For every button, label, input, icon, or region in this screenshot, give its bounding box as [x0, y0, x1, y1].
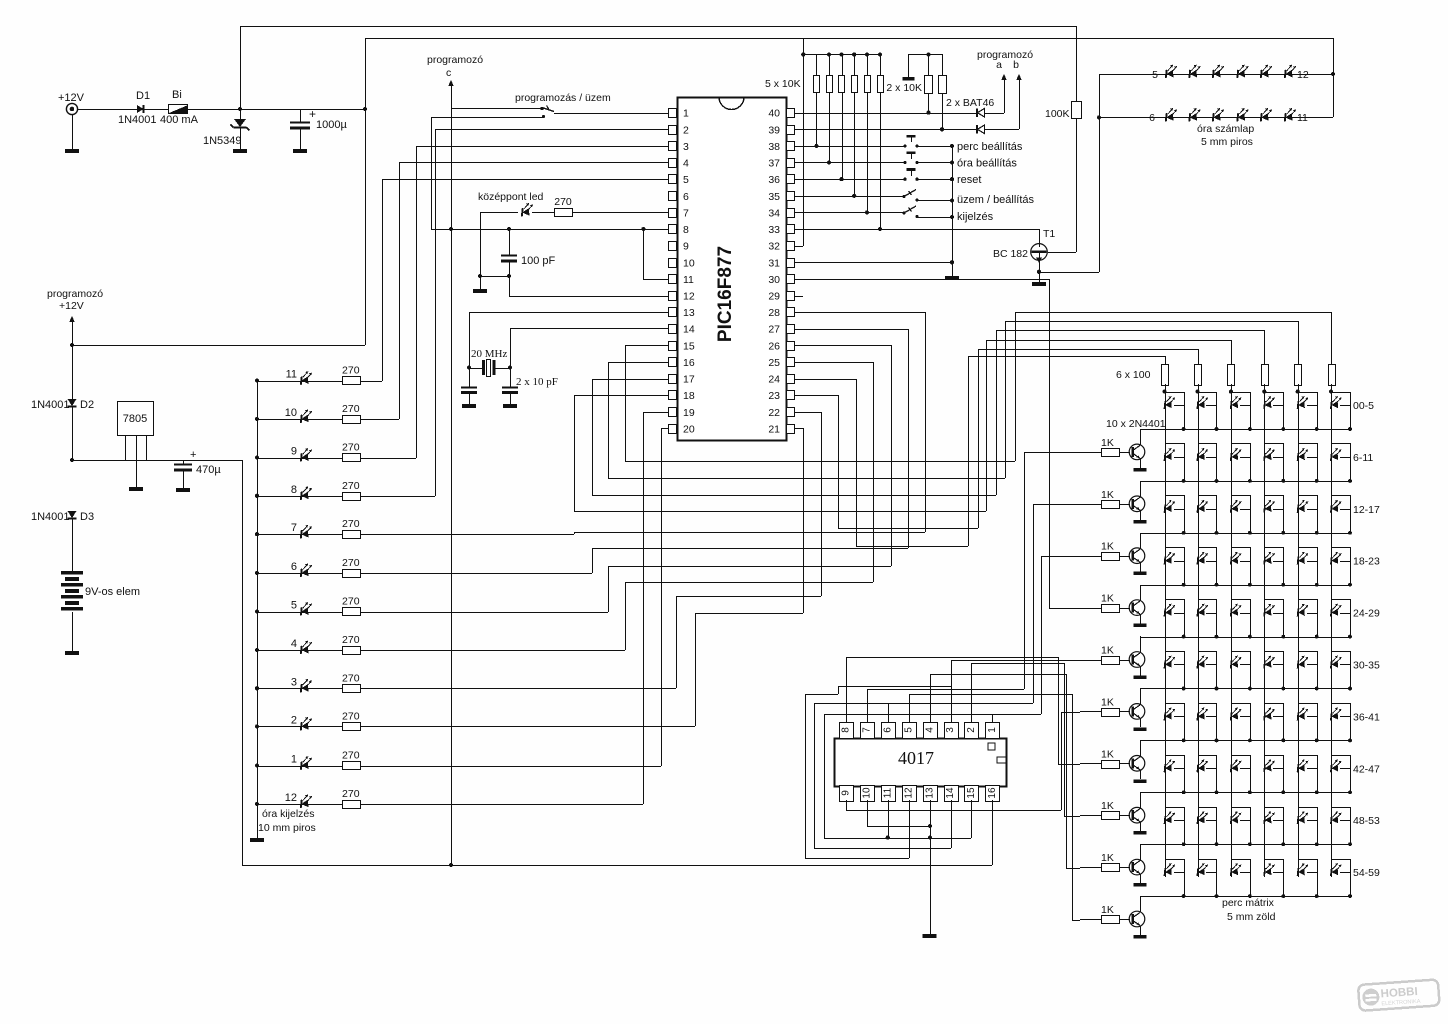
- resistor 270 row 8: [343, 493, 361, 501]
- wire matrix row bus 6: [1140, 740, 1350, 742]
- LED dial row2 5: [1261, 108, 1272, 122]
- resistor 270 row 12: [343, 801, 361, 809]
- svg-text:4: 4: [291, 638, 297, 650]
- node dial right junction: [1331, 72, 1335, 76]
- svg-text:1N4001: 1N4001: [31, 399, 70, 411]
- svg-text:39: 39: [768, 124, 780, 136]
- svg-text:PIC16F877: PIC16F877: [715, 246, 736, 342]
- LED matrix r8c5: [1331, 811, 1342, 824]
- pin 13 PIC: [669, 308, 677, 317]
- svg-text:8: 8: [683, 224, 689, 236]
- resistor 270 row 11: [343, 377, 361, 385]
- wire bracket pin6 pin14 around chip: [951, 800, 953, 848]
- svg-text:1: 1: [683, 108, 689, 120]
- LED matrix r2c5: [1331, 500, 1342, 513]
- LED dial row2 3: [1213, 108, 1224, 122]
- wire 2x10K bridge: [908, 54, 942, 56]
- wire 4017 pin 10 join: [867, 800, 869, 826]
- wire pin21 to LED row 2: [794, 428, 803, 430]
- svg-text:programozó: programozó: [427, 54, 483, 66]
- wire Q2 emitter: [1140, 510, 1142, 520]
- svg-text:270: 270: [342, 788, 360, 800]
- resistor 100 col 3: [1228, 365, 1235, 386]
- wire pin17 matrix column feed: [592, 379, 668, 381]
- wire Q10 collector: [1140, 896, 1142, 912]
- svg-text:óra kijelzés: óra kijelzés: [262, 808, 315, 820]
- pin 9 4017: [840, 786, 854, 802]
- wire +5V bottom bus: [242, 865, 992, 867]
- resistor 270 row 1: [343, 762, 361, 770]
- LED hour 10: [255, 417, 259, 421]
- wire Q8 collector: [1140, 792, 1142, 809]
- capacitor 100 pF: [509, 229, 511, 255]
- wire pin22 to LED row 3: [794, 412, 821, 414]
- transistor Q1 2N4401: [1119, 452, 1130, 454]
- svg-text:100 pF: 100 pF: [521, 255, 556, 267]
- pin 8 4017: [840, 723, 854, 739]
- wire Q6 emitter: [1140, 718, 1142, 727]
- wire pin30 feed to 1K row 3: [1049, 608, 1080, 610]
- LED dial row1 2: [1189, 65, 1200, 79]
- resistor 270 kozeppont: [532, 212, 554, 214]
- LED matrix r2c0: [1164, 500, 1175, 513]
- svg-text:1N4001: 1N4001: [31, 511, 70, 523]
- pin 11 PIC: [669, 275, 677, 284]
- LED matrix r1c3: [1264, 448, 1275, 461]
- wire bracket pin1 pin15 around chip: [824, 714, 992, 716]
- wire pin24 matrix column feed: [794, 379, 856, 381]
- svg-text:18-23: 18-23: [1353, 556, 1380, 568]
- pin 23 PIC: [787, 391, 795, 400]
- LED matrix r1c0: [1164, 448, 1175, 461]
- LED matrix r5c3: [1264, 656, 1275, 669]
- resistor 100 col 1: [1162, 365, 1169, 386]
- pin 10 PIC: [669, 259, 677, 268]
- svg-text:270: 270: [342, 710, 360, 722]
- transistor Q10 2N4401: [1119, 919, 1130, 921]
- node programozo a: [1004, 77, 1006, 113]
- wire +5V line: [70, 458, 74, 462]
- svg-text:perc mátrix: perc mátrix: [1222, 897, 1275, 909]
- svg-text:15: 15: [966, 787, 977, 799]
- svg-text:programozó: programozó: [977, 49, 1033, 61]
- switch óra beállítás: [794, 162, 905, 164]
- svg-text:5 x 10K: 5 x 10K: [765, 78, 801, 90]
- resistor 10K pullup 1: [816, 54, 818, 75]
- wire pin8 net: [431, 229, 668, 231]
- resistor 100K: [1076, 26, 1078, 101]
- svg-text:9: 9: [841, 790, 852, 796]
- ground: [233, 149, 247, 153]
- LED matrix r3c0: [1164, 552, 1175, 565]
- pin 26 PIC: [787, 342, 795, 351]
- svg-text:11: 11: [683, 274, 694, 286]
- resistor 270 row 10: [343, 416, 361, 424]
- node T1 emitter junction: [1037, 270, 1041, 274]
- svg-text:1K: 1K: [1101, 593, 1114, 605]
- pin 12 PIC: [669, 292, 677, 301]
- wire cap to pin12: [509, 276, 511, 296]
- svg-text:perc beállítás: perc beállítás: [957, 141, 1023, 153]
- LED matrix r8c1: [1197, 811, 1208, 824]
- svg-text:4017: 4017: [898, 748, 934, 768]
- svg-text:10 x 2N4401: 10 x 2N4401: [1106, 418, 1166, 430]
- svg-text:15: 15: [683, 340, 695, 352]
- diode D2 1N4001: [72, 345, 74, 399]
- svg-text:100K: 100K: [1045, 108, 1070, 120]
- LED matrix r2c2: [1231, 500, 1242, 513]
- wire c down to +5 bus: [451, 108, 453, 865]
- wire 4017 pin 13 ground: [930, 800, 932, 934]
- pin 3 4017: [945, 723, 959, 739]
- pin 24 PIC: [787, 375, 795, 384]
- svg-text:óra számlap: óra számlap: [1197, 123, 1254, 135]
- LED matrix r4c1: [1197, 604, 1208, 617]
- pin 6 4017: [882, 723, 896, 739]
- LED matrix r6c1: [1197, 707, 1208, 720]
- svg-text:14: 14: [683, 324, 695, 336]
- LED matrix r5c5: [1331, 656, 1342, 669]
- pin 29 PIC: [787, 292, 795, 301]
- wire matrix column verticals: [1165, 392, 1167, 877]
- wire ora szamlap row 6-11: [1097, 115, 1101, 119]
- svg-text:3: 3: [683, 141, 689, 153]
- LED matrix r4c4: [1298, 604, 1309, 617]
- wire pin3 to LED row 9: [416, 146, 668, 148]
- svg-text:7: 7: [861, 727, 872, 733]
- pin 28 PIC: [787, 308, 795, 317]
- ground: [1134, 935, 1147, 939]
- svg-text:270: 270: [342, 442, 360, 454]
- LED matrix r8c4: [1298, 811, 1309, 824]
- LED hour 4: [255, 648, 259, 652]
- wire pin27 to LED row: [794, 329, 908, 331]
- LED matrix r5c0: [1164, 656, 1175, 669]
- svg-text:30: 30: [768, 274, 780, 286]
- ground: [1134, 831, 1147, 835]
- wire pin29 stub: [794, 296, 803, 298]
- svg-text:31: 31: [768, 257, 780, 269]
- pin 7 PIC: [669, 209, 677, 218]
- svg-text:400 mA: 400 mA: [160, 114, 199, 126]
- ground: [65, 149, 79, 153]
- wire bracket pin12 around chip: [909, 800, 911, 858]
- pin 20 PIC: [669, 425, 677, 434]
- svg-text:8: 8: [291, 484, 297, 496]
- LED matrix r3c5: [1331, 552, 1342, 565]
- LED matrix r7c3: [1264, 759, 1275, 772]
- ground: [1032, 282, 1046, 286]
- svg-text:BC 182: BC 182: [993, 248, 1028, 260]
- pin 2 PIC: [669, 126, 677, 135]
- wire pin14 to crystal: [510, 328, 668, 330]
- pin 9 PIC: [669, 242, 677, 251]
- ground: [945, 276, 959, 280]
- svg-text:13: 13: [924, 787, 935, 799]
- wire pin18 matrix column feed: [574, 395, 668, 397]
- wire pin5 to LED row 11: [382, 179, 668, 181]
- svg-text:5: 5: [683, 174, 689, 186]
- wire 4017 pin 7 to 1K: [867, 689, 869, 722]
- svg-text:16: 16: [683, 357, 695, 369]
- LED matrix r1c4: [1298, 448, 1309, 461]
- resistor 10K b: [942, 54, 944, 75]
- LED matrix r9c0: [1164, 863, 1175, 876]
- LED matrix r0c0: [1164, 396, 1175, 409]
- svg-text:27: 27: [768, 324, 780, 336]
- svg-text:14: 14: [945, 787, 956, 799]
- LED hour 7: [255, 532, 259, 536]
- svg-text:270: 270: [342, 634, 360, 646]
- LED matrix r7c4: [1298, 759, 1309, 772]
- pin 2 4017: [965, 723, 979, 739]
- pin 39 PIC: [787, 126, 795, 135]
- resistor 1K row 7: [1080, 815, 1101, 817]
- svg-text:270: 270: [342, 403, 360, 415]
- resistor 1K row 0: [1080, 452, 1101, 454]
- svg-text:6: 6: [1149, 112, 1155, 124]
- wire 4017 pin 2 to 1K: [971, 663, 973, 722]
- svg-text:20: 20: [683, 423, 695, 435]
- svg-text:270: 270: [342, 672, 360, 684]
- transistor Q2 2N4401: [1119, 504, 1130, 506]
- pin 18 PIC: [669, 391, 677, 400]
- wire Q10 emitter: [1140, 926, 1142, 935]
- svg-text:270: 270: [342, 518, 360, 530]
- resistor 100 col 6: [1329, 365, 1336, 386]
- svg-text:270: 270: [342, 480, 360, 492]
- LED matrix r6c5: [1331, 707, 1342, 720]
- LED matrix r5c4: [1298, 656, 1309, 669]
- svg-text:+12V: +12V: [59, 300, 84, 312]
- wire Q3 collector: [1140, 533, 1142, 549]
- svg-text:2 x 10K: 2 x 10K: [886, 82, 922, 94]
- svg-text:+12V: +12V: [58, 92, 85, 104]
- resistor 100 col 4: [1262, 365, 1269, 386]
- battery 9V-os elem: [61, 571, 83, 574]
- LED matrix r8c2: [1231, 811, 1242, 824]
- svg-text:Bi: Bi: [172, 89, 182, 101]
- wire main +12V rail: [78, 109, 365, 111]
- svg-text:10: 10: [861, 787, 872, 799]
- wire Q1 collector: [1140, 429, 1142, 445]
- node programozo b: [1019, 77, 1021, 129]
- zener diode 1N5349: [240, 109, 242, 119]
- svg-text:29: 29: [768, 291, 780, 303]
- LED matrix r0c5: [1331, 396, 1342, 409]
- svg-text:12: 12: [1297, 69, 1309, 81]
- wire matrix row bus 3: [1140, 585, 1350, 587]
- resistor 10K pullup 6: [878, 52, 882, 56]
- svg-text:+: +: [309, 107, 316, 121]
- resistor 1K row 6: [1080, 763, 1101, 765]
- LED matrix r2c1: [1197, 500, 1208, 513]
- svg-text:270: 270: [554, 196, 572, 208]
- wire pin4 to LED row 10: [399, 162, 668, 164]
- ground: [1134, 779, 1147, 783]
- svg-text:11: 11: [882, 787, 893, 798]
- svg-text:12: 12: [285, 792, 297, 804]
- transistor Q9 2N4401: [1119, 867, 1130, 869]
- LED matrix r1c5: [1331, 448, 1342, 461]
- LED matrix r0c3: [1264, 396, 1275, 409]
- LED matrix r9c1: [1197, 863, 1208, 876]
- pin 1 PIC: [669, 109, 677, 118]
- diode BAT46 a: [978, 109, 985, 117]
- LED matrix r3c4: [1298, 552, 1309, 565]
- LED matrix r2c3: [1264, 500, 1275, 513]
- svg-text:5 mm piros: 5 mm piros: [1201, 136, 1253, 148]
- pin 34 PIC: [787, 209, 795, 218]
- svg-text:1K: 1K: [1101, 696, 1114, 708]
- svg-text:40: 40: [768, 108, 780, 120]
- resistor 1K row 4: [1080, 660, 1101, 662]
- resistor 1K row 5: [1080, 711, 1101, 713]
- node junction programozo: [70, 343, 74, 347]
- svg-text:48-53: 48-53: [1353, 815, 1380, 827]
- LED matrix r5c1: [1197, 656, 1208, 669]
- LED dial row1 1: [1166, 65, 1177, 79]
- switch reset: [794, 179, 905, 181]
- LED matrix r0c2: [1231, 396, 1242, 409]
- svg-text:3: 3: [291, 676, 297, 688]
- wire pin28 to LED row: [794, 312, 925, 314]
- svg-text:üzem / beállítás: üzem / beállítás: [957, 194, 1035, 206]
- svg-text:21: 21: [768, 423, 780, 435]
- svg-text:30-35: 30-35: [1353, 660, 1380, 672]
- svg-text:D1: D1: [136, 90, 150, 102]
- svg-text:6 x 100: 6 x 100: [1116, 369, 1151, 381]
- wire 4017 pin 1 to 1K: [992, 714, 994, 722]
- wire pin30 to 4017-area: [794, 279, 1049, 281]
- wire 4017 pin 16 to +5: [992, 800, 994, 865]
- LED matrix r0c1: [1197, 396, 1208, 409]
- resistor 270 row 6: [343, 570, 361, 578]
- svg-text:10 mm piros: 10 mm piros: [258, 822, 316, 834]
- diode D3 1N4001: [68, 511, 77, 518]
- svg-text:12-17: 12-17: [1353, 504, 1380, 516]
- svg-text:2 x 10 pF: 2 x 10 pF: [516, 376, 558, 388]
- svg-text:+: +: [190, 449, 196, 461]
- wire Q4 emitter: [1140, 614, 1142, 624]
- LED dial row1 5: [1261, 65, 1272, 79]
- svg-text:10: 10: [683, 257, 695, 269]
- svg-text:programozó: programozó: [47, 288, 103, 300]
- transistor Q4 2N4401: [1119, 608, 1130, 610]
- svg-text:54-59: 54-59: [1353, 867, 1380, 879]
- pin 27 PIC: [787, 325, 795, 334]
- svg-text:22: 22: [768, 407, 780, 419]
- ground: [462, 404, 476, 408]
- LED matrix r6c0: [1164, 707, 1175, 720]
- LED matrix r8c3: [1264, 811, 1275, 824]
- svg-text:D2: D2: [80, 399, 94, 411]
- IC U3 4017 body: [835, 739, 1007, 787]
- LED hour 12: [255, 802, 259, 806]
- LED dial row2 6: [1285, 108, 1296, 122]
- LED hour 9: [255, 455, 259, 459]
- pin 21 PIC: [787, 425, 795, 434]
- resistor 100 col 2: [1195, 365, 1202, 386]
- resistor 270 row 7: [343, 531, 361, 539]
- wire pin11 link: [643, 229, 645, 279]
- LED hour 6: [255, 571, 259, 575]
- wire matrix row bus 0: [1140, 429, 1350, 431]
- wire pin23 matrix column feed: [794, 395, 838, 397]
- LED dial row1 6: [1285, 65, 1296, 79]
- svg-text:28: 28: [768, 307, 780, 319]
- pin 4 4017: [924, 723, 938, 739]
- capacitor 10pF left: [469, 368, 471, 387]
- pin 22 PIC: [787, 408, 795, 417]
- svg-text:1K: 1K: [1101, 904, 1114, 916]
- wire pin26 to LED row: [794, 345, 891, 347]
- ground: [65, 651, 79, 655]
- wire pin25 to LED row: [794, 362, 873, 364]
- pin 33 PIC: [787, 225, 795, 234]
- svg-text:2: 2: [683, 124, 689, 136]
- svg-text:6-11: 6-11: [1353, 452, 1373, 464]
- LED matrix r9c4: [1298, 863, 1309, 876]
- svg-text:32: 32: [768, 241, 780, 253]
- LED matrix r1c1: [1197, 448, 1208, 461]
- pin 37 PIC: [787, 159, 795, 168]
- LED matrix r4c2: [1231, 604, 1242, 617]
- wire pin13 to crystal: [469, 312, 668, 314]
- ground: [503, 404, 517, 408]
- LED matrix r4c5: [1331, 604, 1342, 617]
- wire switch lower contact to +5: [431, 117, 544, 119]
- LED matrix r0c4: [1298, 396, 1309, 409]
- svg-text:11: 11: [1297, 112, 1308, 124]
- svg-text:reset: reset: [957, 174, 981, 186]
- LED matrix r9c5: [1331, 863, 1342, 876]
- wire kozeppont LED cathode to ground: [480, 212, 518, 214]
- pin 40 PIC: [787, 109, 795, 118]
- pin 7 4017: [861, 723, 875, 739]
- svg-text:1000µ: 1000µ: [316, 119, 347, 131]
- ground: [1134, 572, 1147, 576]
- wire rail2 down to dial: [1333, 38, 1335, 117]
- wire rail2 riser: [365, 38, 367, 109]
- wire pin33 to T1: [794, 229, 1039, 231]
- resistor 270 row 4: [343, 647, 361, 655]
- svg-text:7805: 7805: [123, 413, 147, 425]
- pin 6 PIC: [669, 192, 677, 201]
- resistor 1K row 8: [1080, 867, 1101, 869]
- resistor 10K pullup 3: [839, 52, 843, 56]
- wire +12V rail up to top: [240, 26, 242, 109]
- svg-text:10: 10: [285, 407, 297, 419]
- LED matrix r5c2: [1231, 656, 1242, 669]
- svg-text:középpont led: középpont led: [478, 191, 544, 203]
- svg-text:9: 9: [291, 446, 297, 458]
- svg-text:25: 25: [768, 357, 780, 369]
- IC U1 PIC16F877 body: [678, 98, 787, 441]
- svg-text:8: 8: [841, 727, 852, 733]
- svg-text:1K: 1K: [1101, 852, 1114, 864]
- pin 30 PIC: [787, 275, 795, 284]
- pin 3 PIC: [669, 142, 677, 151]
- wire pin19 to LED row 12: [643, 412, 668, 414]
- svg-text:36-41: 36-41: [1353, 711, 1380, 723]
- svg-text:4: 4: [924, 727, 935, 733]
- switch kijelzes: [794, 212, 904, 214]
- svg-text:11: 11: [286, 369, 297, 381]
- svg-text:1K: 1K: [1101, 645, 1114, 657]
- pin 25 PIC: [787, 358, 795, 367]
- svg-text:12: 12: [903, 787, 914, 799]
